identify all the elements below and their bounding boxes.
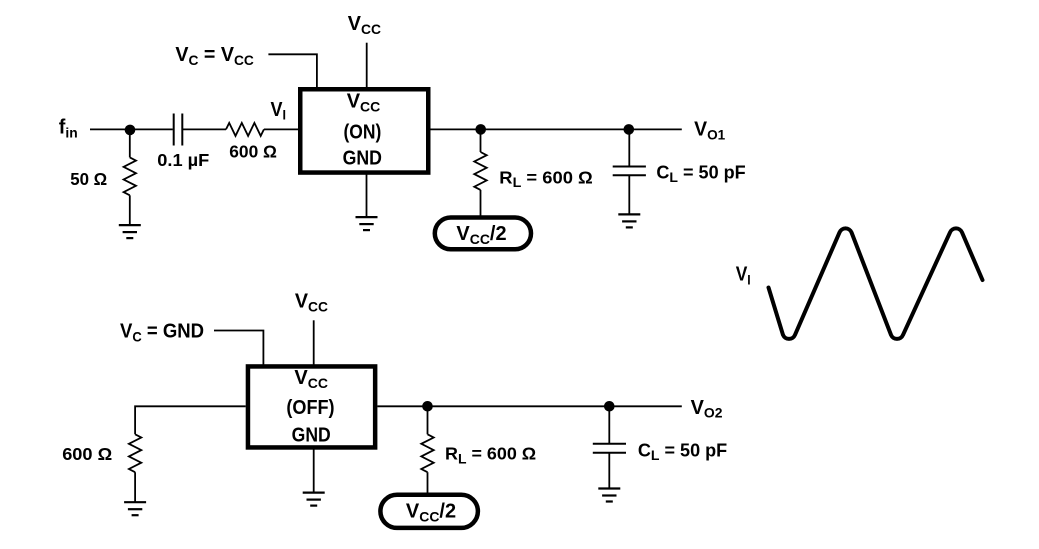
- svg-text:50 Ω: 50 Ω: [70, 168, 107, 189]
- wire VCC supply bottom: [313, 320, 315, 366]
- wire U1 GND pin: [366, 173, 368, 217]
- wire node B to RL1: [480, 129, 482, 152]
- switch box U1: [300, 89, 428, 172]
- label VI input: [271, 99, 287, 123]
- box U1 label ON: [343, 120, 381, 142]
- junction node E: [604, 401, 615, 412]
- ground G3: [618, 214, 640, 227]
- wire RL2 to oval2: [427, 472, 429, 495]
- label CL = 50 pF bottom: [638, 440, 727, 463]
- switch box U2: [248, 366, 375, 447]
- label VO1: [694, 118, 725, 142]
- label RL = 600 ohm top: [499, 167, 592, 190]
- capacitor C1 0.1uF plates: [174, 114, 183, 146]
- label VO2: [691, 397, 723, 421]
- box U2 label OFF: [286, 397, 334, 419]
- source oval VCC/2 top: [435, 218, 531, 250]
- oval2 label VCC/2: [406, 500, 456, 524]
- wire CL1 to ground: [628, 175, 630, 214]
- svg-text:600 Ω: 600 Ω: [62, 444, 112, 464]
- wire VC control top: [268, 54, 317, 89]
- wire node D to RL2: [427, 406, 429, 434]
- waveform label VI: [736, 262, 751, 287]
- junction node C: [624, 124, 635, 135]
- label 600 ohm top: [229, 141, 277, 161]
- ground G6: [598, 489, 620, 502]
- source oval VCC/2 bottom: [380, 495, 478, 528]
- junction node B: [475, 124, 486, 135]
- capacitor CL2 plates: [593, 444, 626, 453]
- label VC = GND: [120, 321, 204, 345]
- label fin: [59, 117, 78, 141]
- wire U2 input left: [135, 406, 246, 434]
- label VC = VCC: [175, 44, 253, 68]
- wire R3 to ground: [134, 472, 136, 502]
- svg-text:(ON): (ON): [343, 120, 381, 142]
- svg-text:0.1 µF: 0.1 µF: [157, 150, 209, 170]
- wire U2 GND pin: [313, 448, 315, 493]
- box U1 label GND: [343, 146, 382, 168]
- oval1 label VCC/2: [456, 223, 506, 247]
- resistor RL2: [421, 434, 433, 472]
- box U2 label GND: [292, 423, 331, 445]
- wire fin to capacitor: [90, 128, 173, 130]
- ground G1: [119, 225, 141, 238]
- wire U2 output: [377, 405, 681, 407]
- wire node A down: [129, 130, 131, 158]
- svg-text:GND: GND: [292, 423, 331, 445]
- junction node D: [422, 401, 433, 412]
- wire R1 to ground: [129, 195, 131, 225]
- box U2 label VCC: [294, 367, 328, 391]
- resistor R1 50 ohm: [124, 157, 136, 195]
- waveform VI triangle wave: [769, 228, 983, 338]
- resistor RL1: [474, 152, 486, 190]
- wire R2 to box U1: [264, 128, 298, 130]
- label RL = 600 ohm bottom: [445, 443, 536, 466]
- resistor R3 600 ohm bottom: [129, 434, 141, 472]
- svg-text:GND: GND: [343, 146, 382, 168]
- wire RL1 to oval1: [480, 190, 482, 216]
- wire VC control bottom: [214, 331, 263, 367]
- ground G2: [356, 217, 378, 230]
- wire VCC supply top: [366, 43, 368, 89]
- label 50 ohm: [70, 168, 107, 189]
- wire U1 output: [431, 128, 682, 130]
- label CL = 50 pF top: [656, 162, 745, 185]
- svg-text:(OFF): (OFF): [286, 397, 334, 419]
- label VCC supply bottom: [295, 290, 328, 314]
- wire node E to CL2: [608, 406, 610, 443]
- ground G5: [303, 493, 325, 506]
- box U1 label VCC: [347, 91, 381, 115]
- ground G4: [124, 502, 146, 515]
- wire C1 to R2: [182, 128, 226, 130]
- resistor R2 600 ohm: [226, 123, 264, 136]
- label 600 ohm bottom: [62, 444, 112, 464]
- wire node C to CL1: [628, 129, 630, 166]
- wire CL2 to ground: [608, 453, 610, 489]
- label VCC supply top: [348, 13, 381, 37]
- capacitor CL1 plates: [613, 167, 646, 176]
- junction node A: [125, 125, 136, 136]
- svg-text:600 Ω: 600 Ω: [229, 141, 277, 161]
- label 0.1 uF: [157, 150, 209, 170]
